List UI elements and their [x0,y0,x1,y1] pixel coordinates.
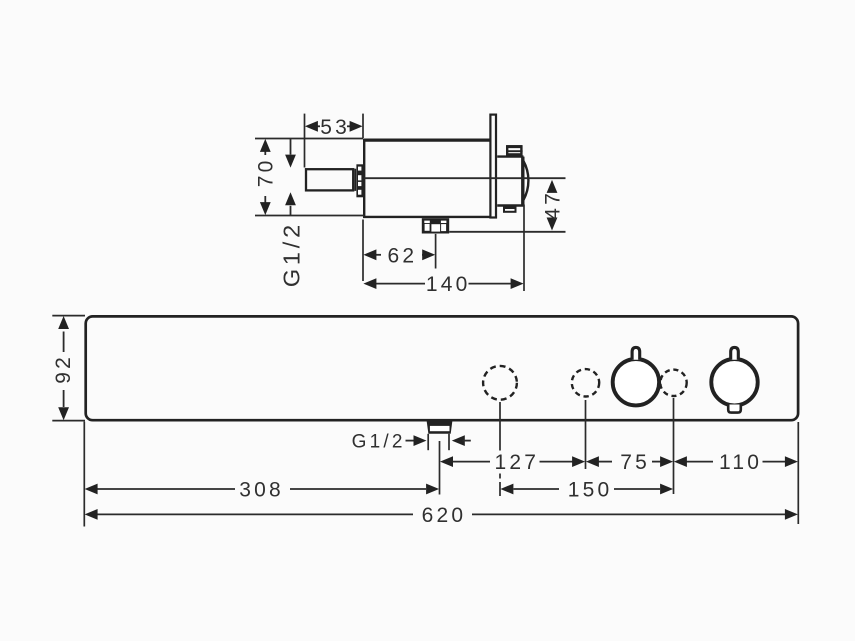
svg-text:G1/2: G1/2 [279,221,305,287]
svg-text:47: 47 [542,190,565,220]
svg-text:620: 620 [422,504,467,527]
svg-text:G1/2: G1/2 [352,431,406,452]
svg-text:150: 150 [568,479,613,502]
svg-text:308: 308 [239,479,284,502]
svg-text:53: 53 [320,116,350,139]
svg-text:140: 140 [426,273,471,296]
svg-text:92: 92 [52,354,75,384]
svg-text:62: 62 [388,244,418,267]
svg-text:75: 75 [620,451,650,474]
svg-text:110: 110 [719,451,762,474]
svg-text:70: 70 [254,158,277,188]
svg-text:127: 127 [494,451,539,474]
